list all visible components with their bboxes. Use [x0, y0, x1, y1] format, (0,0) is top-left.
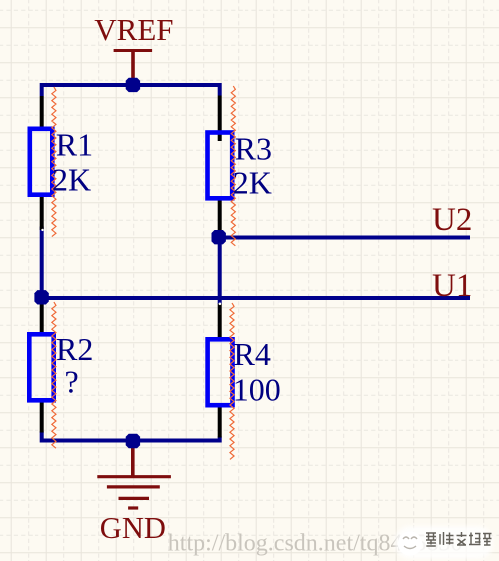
svg-text:R1: R1 [56, 127, 93, 163]
wire right middle (R3 bottom to R4 top, node U2) [218, 230, 222, 304]
resistor R1 body [30, 129, 53, 195]
junction node U2 [212, 230, 226, 244]
pin R3 bottom [218, 200, 222, 231]
pin R1 top [40, 96, 44, 127]
watermark logo circle [398, 531, 422, 555]
junction node VREF [126, 78, 140, 92]
pin R2 top [40, 303, 44, 333]
power port GND bar2 [107, 485, 160, 488]
svg-text:U1: U1 [432, 268, 472, 304]
pin end marker R1 bottom [41, 229, 43, 231]
error marker zigzag left upper [52, 87, 56, 237]
error marker zigzag left lower [52, 302, 56, 448]
pin R4 bottom [218, 407, 222, 438]
junction node U1 [34, 290, 48, 304]
svg-text:VREF: VREF [94, 12, 173, 47]
watermark logo glow [395, 526, 493, 559]
power port VREF stem [131, 51, 135, 80]
wire left middle (R1 bottom to R2 top, node U1) [40, 227, 44, 304]
watermark logo CJK text (drawn strokes) [426, 532, 492, 546]
svg-text:GND: GND [100, 511, 166, 545]
wire left bottom + bottom rail GND [42, 432, 220, 441]
junction node GND [126, 434, 140, 448]
pin R2 bottom [40, 402, 44, 433]
svg-text:2K: 2K [52, 162, 91, 198]
power port GND bar1 [97, 475, 171, 478]
svg-text:?: ? [65, 364, 79, 400]
svg-text:2K: 2K [233, 165, 272, 201]
svg-text:R4: R4 [234, 336, 271, 372]
wire top rail VREF [42, 85, 220, 96]
svg-text:R3: R3 [235, 131, 272, 167]
resistor R3 body [208, 133, 233, 199]
svg-text:100: 100 [233, 371, 281, 407]
resistor R4 body [208, 339, 233, 405]
wire U2 horizontal [220, 236, 470, 240]
pin R1 bottom [40, 197, 44, 231]
power port GND bar3 [119, 497, 150, 500]
wire U1 horizontal [42, 296, 470, 300]
svg-text:U2: U2 [432, 202, 472, 238]
pin R3 top [218, 96, 222, 142]
error marker zigzag right lower [230, 303, 234, 459]
resistor R2 body [29, 334, 53, 400]
pin R4 top [218, 304, 222, 338]
pin end marker R4 top [219, 303, 222, 306]
power port GND stem [131, 441, 135, 477]
power port GND bar4 [128, 506, 138, 509]
error marker zigzag right upper [231, 86, 235, 246]
power port VREF bar [114, 49, 153, 52]
svg-text:R2: R2 [56, 331, 93, 367]
